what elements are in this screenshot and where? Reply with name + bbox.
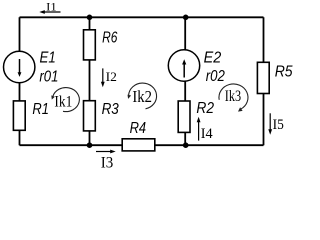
svg-text:Ik1: Ik1 <box>54 94 72 111</box>
svg-text:I2: I2 <box>106 69 117 84</box>
svg-text:R3: R3 <box>102 101 119 118</box>
svg-text:I4: I4 <box>201 126 213 142</box>
svg-text:R2: R2 <box>196 100 214 117</box>
svg-text:I3: I3 <box>101 155 114 168</box>
resistor R1 <box>13 101 25 130</box>
svg-text:E1: E1 <box>40 50 56 67</box>
source E1 circle <box>4 51 35 82</box>
wire right branch <box>263 17 265 145</box>
current arrow I3 <box>96 150 116 154</box>
resistor R2 <box>178 101 190 132</box>
node junction top R6 <box>87 14 93 20</box>
current arrow I5 <box>268 113 272 135</box>
current arrow I4 <box>197 117 201 141</box>
source E2 circle <box>168 50 199 81</box>
svg-text:R5: R5 <box>275 64 293 81</box>
svg-text:I5: I5 <box>273 117 284 133</box>
loop arrow Ik2 <box>128 83 157 109</box>
wire bottom <box>20 144 264 146</box>
source E2 arrow <box>182 59 186 77</box>
wire branch E2 R2 <box>184 17 186 145</box>
svg-text:R6: R6 <box>102 30 117 47</box>
svg-text:r02: r02 <box>206 68 225 85</box>
svg-text:r01: r01 <box>39 68 58 85</box>
node junction bottom R2 <box>183 142 189 148</box>
wire top <box>20 16 264 18</box>
svg-text:R1: R1 <box>32 101 49 118</box>
svg-text:E2: E2 <box>204 50 222 67</box>
current arrow I1 <box>39 10 60 14</box>
svg-text:R4: R4 <box>130 120 147 137</box>
node junction bottom R3 <box>87 142 93 148</box>
current arrow I2 <box>101 68 105 87</box>
source E1 arrow <box>18 59 22 77</box>
wire middle branch R6 R3 <box>89 17 91 145</box>
resistor R4 <box>122 139 155 151</box>
node junction top E2 <box>183 14 189 20</box>
resistor R3 <box>84 101 96 131</box>
loop arrow Ik3 <box>219 84 248 112</box>
svg-text:Ik3: Ik3 <box>225 88 241 105</box>
svg-text:I1: I1 <box>46 0 57 13</box>
resistor R5 <box>257 62 269 93</box>
wire left branch <box>19 17 21 145</box>
resistor R6 <box>84 30 96 60</box>
svg-text:Ik2: Ik2 <box>132 87 152 106</box>
loop arrow Ik1 <box>51 88 79 112</box>
